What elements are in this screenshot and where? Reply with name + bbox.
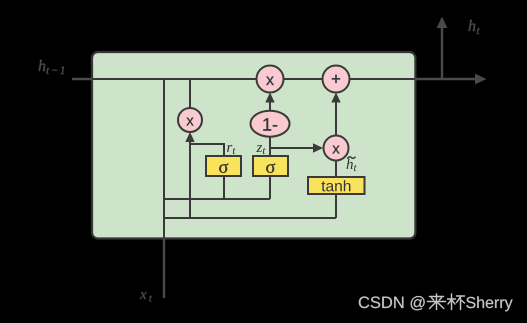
GRU cell box bbox=[92, 52, 415, 239]
wire: tanh bottom to line B bbox=[335, 194, 337, 218]
watermark Sherry text bbox=[466, 296, 512, 311]
label sigma of box1 bbox=[219, 163, 228, 173]
wire: x_t vertical below cell bbox=[163, 238, 165, 298]
label 1- of ellipse bbox=[263, 118, 277, 130]
label r_t bbox=[227, 145, 236, 154]
wire: x1 output down to line B bbox=[189, 142, 191, 218]
arrowheads bbox=[437, 17, 487, 85]
label + of op plus bbox=[332, 75, 340, 83]
arrowhead into x3 left bbox=[313, 143, 323, 152]
arrowhead into plus bottom bbox=[331, 93, 340, 103]
wire: main h line inside cell bbox=[91, 78, 416, 80]
wire: x3 bottom to tanh bbox=[335, 160, 337, 177]
op circle plus bbox=[323, 66, 350, 93]
wire: h output line outside cell bbox=[415, 78, 479, 80]
wire: x_t vertical V1 inside cell bbox=[163, 79, 165, 238]
label sigma of box2 bbox=[266, 163, 275, 173]
op circle x1 (reset multiply) bbox=[178, 108, 202, 132]
sigma box 2 (z gate) bbox=[253, 156, 288, 176]
watermark CSDN text bbox=[359, 296, 425, 310]
watermark hanzi LAI (drawn) bbox=[428, 294, 446, 310]
label tanh bbox=[321, 180, 350, 191]
label x_t input bbox=[140, 292, 152, 301]
wire: h_{t-1} input stub outside cell bbox=[72, 78, 92, 80]
wire: branch into x1 top bbox=[189, 79, 191, 108]
wire: h_t up branch bbox=[441, 26, 443, 80]
label h_t output bbox=[469, 20, 480, 34]
op circle x2 (on main line) bbox=[257, 66, 284, 93]
wire: sigma1 bottom to line A bbox=[223, 176, 225, 199]
arrowhead into x2 bottom from 1- bbox=[265, 93, 274, 103]
1- ellipse bbox=[251, 111, 290, 137]
arrowhead h_t up bbox=[437, 17, 448, 29]
watermark hanzi BEI (drawn) bbox=[448, 294, 465, 310]
wire: sigma2 bottom to line A bbox=[269, 176, 271, 199]
label h-tilde_t bbox=[347, 159, 357, 172]
arrowhead into x1 bottom bbox=[185, 132, 194, 142]
label x of op x3 bbox=[332, 146, 339, 154]
wire: z branch to x3 bbox=[270, 147, 315, 149]
label x of op x2 bbox=[266, 77, 274, 85]
sigma box 1 (r gate) bbox=[206, 156, 241, 176]
wire: line B bbox=[164, 217, 336, 219]
wire: arrow shaft x3 to plus bbox=[335, 100, 337, 135]
arrowhead right end of main line bbox=[475, 74, 487, 85]
wire: elbow to sigma1 bbox=[190, 144, 224, 156]
tilde accent of h-tilde_t bbox=[347, 157, 355, 159]
label h_t-1 bbox=[39, 60, 65, 74]
wire: arrow shaft 1- to x2 bbox=[269, 100, 271, 111]
label x of op x1 bbox=[186, 118, 193, 126]
tanh box bbox=[308, 177, 365, 194]
wire: line A bbox=[164, 198, 270, 200]
wire: sigma2 top to 1- ellipse bbox=[269, 136, 271, 156]
label z_t bbox=[256, 145, 265, 154]
op circle x3 bbox=[324, 136, 349, 161]
